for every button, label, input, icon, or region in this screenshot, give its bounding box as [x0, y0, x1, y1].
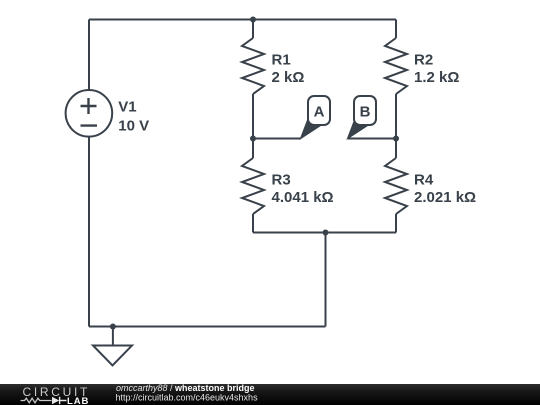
wire: R1 bottom lead to node A [252, 94, 254, 139]
wire: R2 top lead [395, 20, 397, 39]
wire: R1 top lead [252, 20, 254, 39]
svg-text:LAB: LAB [67, 396, 89, 405]
svg-text:B: B [360, 104, 371, 121]
wire: bridge bottom node down to bottom rail [325, 233, 327, 327]
flag B tail [347, 121, 367, 139]
resistor R2 [385, 38, 407, 94]
junction dot at node A [250, 136, 256, 142]
footer bar [0, 384, 540, 405]
wire: top rail left segment (V1 top corner to R1 top node) [89, 19, 253, 21]
wire: R4 bottom lead [395, 214, 397, 233]
svg-text:10 V: 10 V [118, 118, 149, 135]
resistor R4 [385, 158, 407, 214]
svg-text:2.021 kΩ: 2.021 kΩ [414, 189, 476, 206]
svg-text:2 kΩ: 2 kΩ [272, 69, 305, 86]
wire: bridge bottom rail (R3 to R4) [253, 232, 396, 234]
voltage source V1 [66, 90, 113, 137]
wire: R2 bottom lead to node B [395, 94, 397, 139]
flag B box [354, 96, 376, 125]
junction dot at ground tap [110, 324, 116, 330]
svg-text:R3: R3 [272, 171, 291, 188]
wire: top rail right segment (R1 top node to R2 top corner) [253, 19, 396, 21]
flag A tail [300, 121, 320, 139]
wire: R3 bottom lead [252, 214, 254, 233]
CircuitLab logo: diode symbol [52, 397, 59, 404]
CircuitLab logo: resistor squiggle [21, 398, 52, 403]
wire: V1 top lead [88, 20, 90, 91]
junction dot at R1 top node [250, 17, 256, 23]
svg-text:V1: V1 [118, 99, 136, 116]
resistor R1 [242, 38, 264, 94]
wire: R3 top lead [252, 139, 254, 159]
junction dot at bridge bottom node [323, 230, 329, 236]
wire: V1 bottom lead down to bottom rail [88, 136, 90, 326]
wire: flag B anchor to node B [348, 138, 396, 140]
svg-text:http://circuitlab.com/c46eukv4: http://circuitlab.com/c46eukv4shxhs [116, 393, 259, 403]
svg-text:1.2 kΩ: 1.2 kΩ [414, 69, 459, 86]
svg-text:R1: R1 [272, 51, 291, 68]
svg-text:R2: R2 [414, 51, 433, 68]
wire: bottom rail (V1 to bridge bottom return) [89, 326, 326, 328]
resistor R3 [242, 158, 264, 214]
wire: R4 top lead [395, 139, 397, 159]
junction dot at node B [393, 136, 399, 142]
svg-text:R4: R4 [414, 171, 434, 188]
ground [93, 346, 132, 366]
svg-text:omccarthy88 / wheatstone bridg: omccarthy88 / wheatstone bridge [116, 383, 255, 393]
svg-text:4.041 kΩ: 4.041 kΩ [272, 189, 334, 206]
svg-text:A: A [314, 104, 325, 121]
flag A box [308, 96, 330, 125]
wire: ground stub [112, 327, 114, 346]
wire: node A to flag A anchor [253, 138, 301, 140]
